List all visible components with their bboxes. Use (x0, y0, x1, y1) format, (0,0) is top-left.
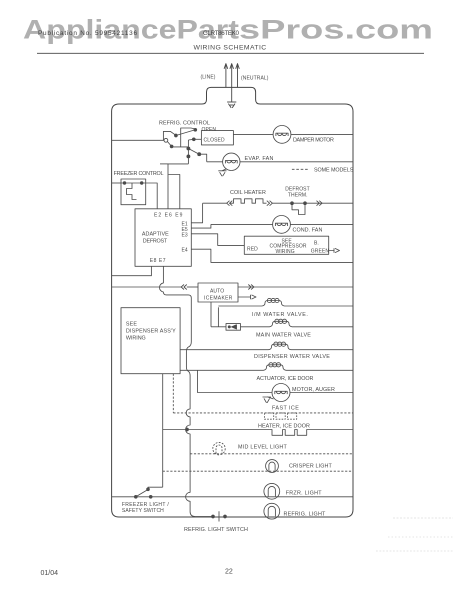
ground at auger motor (263, 397, 274, 403)
svg-text:GLRT86TEK0: GLRT86TEK0 (203, 30, 240, 37)
wire mid level light dashed row (190, 453, 353, 455)
damper motor M1 (273, 125, 291, 143)
fast ice heater dashed element (265, 413, 297, 419)
wire E5 to cond fan riser (191, 224, 211, 228)
I/M water valve solenoid L1 (262, 301, 285, 307)
svg-text:REFRIG. CONTROL: REFRIG. CONTROL (159, 121, 210, 127)
wire icemaker to right border (238, 286, 353, 288)
wire + coil heater element (square bumps) (203, 199, 267, 203)
svg-text:DISPENSER WATER VALVE: DISPENSER WATER VALVE (254, 354, 330, 360)
svg-text:sPros.com: sPros.com (239, 15, 433, 45)
wire crisper light dashed row (163, 470, 353, 472)
svg-text:MOTOR, AUGER: MOTOR, AUGER (292, 387, 335, 393)
wire defrost row to right border (272, 202, 353, 204)
freezer control sensor staircase (127, 183, 137, 200)
wire cond fan row (211, 223, 273, 225)
freezer control box (121, 179, 146, 205)
svg-text:ADAPTIVE: ADAPTIVE (142, 231, 169, 237)
wire dispenser valve row (180, 349, 268, 351)
refrig control common contact (open circle) (164, 138, 168, 142)
auto icemaker box (198, 283, 238, 302)
faint scan marks bottom right (376, 518, 454, 551)
header rule (37, 52, 424, 54)
wire evap fan feed (199, 154, 207, 162)
wire main valve to right border (292, 326, 353, 328)
wire left border to freezer control (112, 182, 121, 184)
wire fast ice dashed riser (172, 374, 174, 413)
wire riser E6 (168, 164, 188, 209)
svg-text:B.: B. (314, 241, 319, 247)
wire riser E6 tail (160, 163, 168, 165)
svg-text:Publication No. 5995421136: Publication No. 5995421136 (38, 30, 137, 37)
svg-text:DAMPER MOTOR: DAMPER MOTOR (293, 138, 334, 144)
connector chevrons into icemaker (181, 285, 187, 290)
svg-text:REFRIG. LIGHT: REFRIG. LIGHT (284, 512, 327, 518)
svg-text:CLOSED: CLOSED (204, 138, 225, 144)
icemaker fill tube arrow stub (238, 295, 256, 299)
svg-text:SAFETY SWITCH: SAFETY SWITCH (122, 508, 164, 514)
svg-text:GREEN: GREEN (311, 248, 330, 254)
actuator ice door solenoid L4 (264, 365, 287, 371)
CLOSED label box (201, 131, 233, 145)
wire main water valve row left (211, 326, 226, 328)
wire E4 to neutral border (191, 249, 353, 262)
wire auger motor to right border (290, 392, 353, 394)
condenser fan motor M3 (273, 216, 291, 234)
svg-text:22: 22 (225, 569, 233, 576)
contact dot CLOSED (192, 138, 195, 141)
contact bus vertical (187, 140, 189, 164)
wire damper motor row (233, 133, 273, 135)
svg-text:CRISPER LIGHT: CRISPER LIGHT (289, 463, 333, 469)
wire E8 to left border (112, 266, 152, 275)
line input arrow (224, 64, 228, 88)
freezer safety switch blade (136, 490, 148, 497)
junction dot heater row (186, 428, 189, 431)
wire switch branch to left bus (148, 487, 163, 489)
svg-text:FRZR. LIGHT: FRZR. LIGHT (286, 490, 323, 496)
svg-text:DEFROST: DEFROST (143, 239, 168, 245)
svg-text:DISPENSER ASS'Y: DISPENSER ASS'Y (126, 328, 176, 334)
ground symbol at line entry (227, 102, 236, 108)
svg-text:01/04: 01/04 (41, 570, 59, 577)
wire evap fan row left (207, 161, 223, 163)
linkage bracket (163, 131, 175, 140)
evaporator fan motor M2 (223, 153, 240, 170)
neutral input arrow (236, 64, 240, 88)
wire D4 to contact bus (172, 146, 189, 148)
svg-text:COND. FAN: COND. FAN (293, 227, 323, 233)
wire plug to main valve coil (241, 326, 270, 328)
wire I/M valve to right border (285, 305, 354, 307)
svg-text:WIRING SCHEMATIC: WIRING SCHEMATIC (193, 44, 266, 51)
defrost thermostat junction dot 2 (304, 202, 307, 205)
plug connector main valve (226, 324, 241, 331)
refrig control blade to lower pole (168, 142, 172, 147)
svg-text:SOME MODELS: SOME MODELS (314, 168, 354, 174)
ground input arrow (230, 64, 234, 102)
refrigerator light lamp (264, 503, 280, 519)
svg-text:AUTO: AUTO (210, 289, 224, 295)
node D4 (170, 145, 173, 148)
connector chevrons into coil heater (227, 201, 233, 206)
svg-text:RED: RED (247, 246, 258, 252)
svg-text:THERM.: THERM. (288, 193, 308, 199)
wire closed contact to box (194, 138, 202, 140)
wire dispenser valve to right border (291, 349, 353, 351)
svg-text:E8 E7: E8 E7 (150, 258, 166, 264)
svg-text:ICEMAKER: ICEMAKER (204, 296, 233, 302)
main outline border with entry bump (112, 87, 353, 517)
svg-text:E3: E3 (182, 233, 188, 239)
wire auger motor feed riser (198, 370, 272, 392)
dispenser water valve solenoid L3 (269, 344, 292, 350)
svg-text:SEE: SEE (126, 321, 137, 327)
wire freezer control to E2 riser (146, 183, 158, 209)
svg-text:E4: E4 (182, 248, 188, 254)
wire evap fan to right border (240, 161, 353, 163)
svg-text:WIRING: WIRING (126, 335, 146, 341)
wire from left border to refrig control common (112, 139, 164, 141)
wire E1 to coil heater riser (191, 203, 202, 223)
wire heater ice door row with element (163, 430, 353, 436)
svg-text:HEATER, ICE DOOR: HEATER, ICE DOOR (258, 424, 310, 430)
stub to closed contact (188, 138, 193, 141)
contact dot mid (187, 147, 190, 150)
wire chevron to icemaker box (187, 286, 198, 288)
contact dot lower (187, 155, 190, 158)
wire E3 to compressor box (191, 234, 244, 246)
svg-text:REFRIG. LIGHT SWITCH: REFRIG. LIGHT SWITCH (184, 527, 248, 533)
refrig control blade to OPEN contact (176, 130, 194, 135)
freezer light lamp (264, 483, 280, 499)
svg-text:E2 E6 E9: E2 E6 E9 (154, 213, 183, 219)
svg-text:ACTUATOR, ICE DOOR: ACTUATOR, ICE DOOR (257, 376, 314, 382)
ground at evap fan (218, 169, 226, 177)
crisper light lamp (266, 460, 279, 473)
connector chevrons on icemaker neutral wire (248, 285, 254, 290)
defrost thermostat bypass staple (292, 203, 305, 214)
svg-text:COIL HEATER: COIL HEATER (230, 190, 266, 196)
svg-text:FAST ICE: FAST ICE (272, 406, 299, 412)
legend SOME MODELS dashed (292, 168, 310, 170)
contact dot evap (198, 153, 201, 156)
ground wire arrow from GREEN (329, 248, 340, 252)
main water valve solenoid L2 (270, 321, 293, 327)
freezer control contacts and wire (121, 182, 146, 184)
mid level light lamp dashed (213, 442, 225, 454)
wire cond fan to right border (290, 223, 353, 225)
compressor wiring box (244, 236, 328, 254)
svg-text:(NEUTRAL): (NEUTRAL) (241, 75, 269, 81)
svg-text:MAIN WATER VALVE: MAIN WATER VALVE (256, 333, 311, 339)
wire I/M water valve row (218, 305, 262, 307)
dispenser assembly box (121, 308, 180, 374)
refrigerator light switch on bottom border (212, 515, 215, 518)
blade to evap contact (188, 149, 199, 155)
wire icemaker box risers (210, 302, 212, 327)
wire fast ice dashed row (173, 412, 353, 414)
contact dot OPEN (194, 128, 197, 131)
wire E7 riser with hop to lower bus (159, 266, 213, 516)
adaptive defrost control U1 (135, 209, 191, 266)
wire open-contact bus (181, 128, 196, 147)
refrig control upper blade pivot dot (175, 134, 178, 137)
wire actuator to right border (286, 369, 353, 371)
wire left border to icemaker (112, 286, 182, 288)
wire freezer light row (112, 496, 353, 498)
svg-text:WIRING: WIRING (276, 249, 295, 255)
svg-text:I/M WATER VALVE.: I/M WATER VALVE. (252, 312, 308, 318)
svg-text:EVAP. FAN: EVAP. FAN (245, 156, 274, 162)
wire riser E9 (169, 175, 180, 209)
connector chevrons on defrost row (317, 201, 323, 206)
svg-text:MID LEVEL LIGHT: MID LEVEL LIGHT (238, 445, 288, 451)
wire actuator row (180, 369, 263, 371)
wire left bus from dispenser box (162, 374, 164, 488)
auger motor M4 (272, 384, 290, 402)
svg-text:(LINE): (LINE) (201, 74, 216, 80)
defrost thermostat junction dot 1 (291, 202, 294, 205)
wire damper motor to right border (291, 133, 353, 135)
connector chevrons out of coil heater (267, 201, 273, 206)
svg-text:FREEZER CONTROL: FREEZER CONTROL (114, 171, 164, 177)
